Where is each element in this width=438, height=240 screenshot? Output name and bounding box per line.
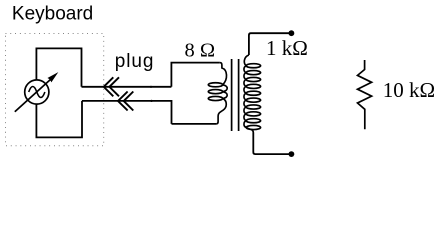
plug P1 chevron 3 — [118, 92, 128, 111]
transformer core line 1 — [231, 59, 233, 131]
inductor L1 8 ohm primary coil — [208, 63, 227, 124]
svg-text:plug: plug — [115, 51, 155, 72]
svg-text:8 Ω: 8 Ω — [185, 40, 216, 62]
junction tick on top wire — [150, 86, 152, 88]
transformer core line 2 — [238, 59, 240, 131]
node dot bottom — [289, 151, 295, 157]
svg-text:10 kΩ: 10 kΩ — [383, 78, 435, 102]
inductor L2 secondary coil — [244, 55, 261, 133]
svg-text:1 kΩ: 1 kΩ — [266, 36, 308, 60]
sine wave inside source — [29, 87, 45, 98]
resistor R1 zigzag — [358, 60, 372, 129]
plug P1 chevron 2 — [109, 77, 119, 96]
keyboard enclosure dotted box — [6, 34, 104, 146]
wire: jog up to primary top rail — [171, 63, 219, 87]
wire: keyboard bottom return to source — [36, 101, 82, 137]
plug P1 chevron 4 — [124, 92, 134, 111]
wire: secondary bottom lead to node — [253, 133, 291, 155]
wire: source top to keyboard top-right down to top plug wire — [36, 48, 81, 86]
wire: top plug wire — [82, 86, 172, 88]
AC source V1 circle — [25, 80, 49, 104]
variable arrow head — [47, 72, 58, 82]
plug P1 chevron 1 — [104, 77, 114, 96]
wire: jog up to bottom plug wire — [82, 101, 172, 124]
variable arrow shaft — [15, 79, 51, 112]
junction tick on bottom wire — [150, 100, 152, 102]
svg-text:Keyboard: Keyboard — [12, 3, 93, 24]
wire: primary bottom rail — [172, 123, 217, 125]
node dot top — [289, 30, 295, 36]
wire: secondary top lead to node — [249, 33, 292, 55]
